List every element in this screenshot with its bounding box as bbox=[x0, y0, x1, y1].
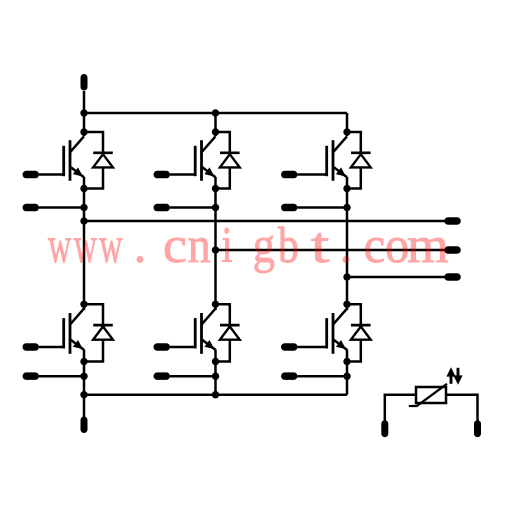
wire: gate lead of Q2 bbox=[170, 173, 195, 176]
terminal: gate G2 bbox=[154, 171, 171, 179]
terminal: auxiliary emitter E6 bbox=[281, 372, 298, 380]
junction: P bus at leg 2 bbox=[212, 109, 219, 116]
wire: leg 3 collector drop bbox=[346, 113, 349, 136]
junction: D3 anode / emitter node bbox=[343, 185, 350, 192]
junction: D6 anode / emitter node bbox=[343, 358, 350, 365]
junction: auxiliary emitter node bbox=[212, 204, 219, 211]
wire: gate lead of Q4 bbox=[39, 346, 64, 349]
terminal: DC+ (P) bbox=[81, 74, 88, 91]
svg-text:c: c bbox=[163, 217, 187, 274]
diode D4 bbox=[93, 325, 113, 340]
wire: phase U output line bbox=[84, 220, 445, 223]
svg-text:i: i bbox=[222, 216, 233, 273]
wire: thermistor left lead bbox=[385, 395, 416, 421]
terminal: auxiliary emitter E2 bbox=[154, 204, 171, 212]
svg-text:.: . bbox=[134, 218, 147, 274]
wire: diode branch of D4 bbox=[84, 304, 103, 361]
junction: D3 cathode node bbox=[343, 128, 350, 135]
wire: leg 1 emitter to N terminal bbox=[83, 350, 86, 418]
terminal: phase U bbox=[444, 217, 461, 225]
transistor Q1 (IGBT) bbox=[64, 136, 84, 181]
wire: leg 2 collector drop bbox=[214, 113, 217, 136]
junction: D6 cathode node bbox=[343, 301, 350, 308]
terminal: thermistor T2 bbox=[474, 420, 481, 437]
wire: auxiliary emitter lead of Q1 bbox=[39, 206, 84, 209]
terminal: auxiliary emitter E5 bbox=[154, 372, 171, 380]
junction: auxiliary emitter node bbox=[80, 373, 87, 380]
junction: D4 cathode node bbox=[80, 301, 87, 308]
transistor Q6 (IGBT) bbox=[327, 309, 347, 354]
thermistor RT1 diagonal stroke bbox=[409, 384, 447, 406]
wire: leg 1 midpoint vertical bbox=[83, 177, 86, 310]
wire: diode branch of D1 bbox=[84, 132, 103, 189]
junction: auxiliary emitter node bbox=[343, 373, 350, 380]
junction: D4 anode / emitter node bbox=[80, 358, 87, 365]
terminal: gate G3 bbox=[281, 171, 298, 179]
junction: D5 anode / emitter node bbox=[212, 358, 219, 365]
wire: leg 3 emitter drop bbox=[346, 350, 349, 395]
wire: leg 3 midpoint vertical bbox=[346, 177, 349, 310]
wire: gate lead of Q3 bbox=[298, 173, 327, 176]
wire: gate lead of Q1 bbox=[39, 173, 64, 176]
transistor Q5 (IGBT) bbox=[195, 309, 215, 354]
transistor Q2 (IGBT) bbox=[195, 136, 215, 181]
svg-text:m: m bbox=[407, 217, 449, 274]
wire: auxiliary emitter lead of Q4 bbox=[39, 375, 84, 378]
terminal: gate G4 bbox=[23, 343, 40, 351]
wire: diode branch of D2 bbox=[216, 132, 230, 189]
wire: phase V output line bbox=[216, 249, 446, 252]
svg-text:w: w bbox=[48, 218, 71, 274]
terminal: gate G1 bbox=[23, 171, 40, 179]
wire: diode branch of D3 bbox=[347, 132, 361, 189]
junction: phase V tap bbox=[212, 246, 219, 253]
wire: diode branch of D6 bbox=[347, 304, 361, 361]
diode D2 bbox=[220, 153, 240, 168]
wire: gate lead of Q5 bbox=[170, 346, 195, 349]
wire: auxiliary emitter lead of Q3 bbox=[298, 206, 348, 209]
diode D6 bbox=[351, 325, 371, 340]
terminal: phase W bbox=[444, 273, 461, 281]
diode D3 bbox=[351, 153, 371, 168]
wire: diode branch of D5 bbox=[216, 304, 230, 361]
thermistor RT1 (NTC) body bbox=[416, 387, 446, 403]
junction: N bus at leg 2 bbox=[212, 391, 219, 398]
junction: D2 anode / emitter node bbox=[212, 185, 219, 192]
svg-text:b: b bbox=[278, 217, 299, 274]
junction: D5 cathode node bbox=[212, 301, 219, 308]
svg-text:n: n bbox=[188, 218, 211, 274]
wire: phase W output line bbox=[347, 276, 445, 279]
wire: positive DC bus bbox=[84, 112, 347, 115]
junction: D1 anode / emitter node bbox=[80, 185, 87, 192]
watermark text bbox=[48, 216, 449, 274]
wire: auxiliary emitter lead of Q6 bbox=[298, 375, 348, 378]
svg-text:w: w bbox=[99, 218, 122, 274]
terminal: auxiliary emitter E4 bbox=[23, 372, 40, 380]
wire: thermistor right lead bbox=[446, 395, 478, 421]
junction: phase W tap bbox=[343, 273, 350, 280]
junction: phase U tap bbox=[80, 217, 87, 224]
terminal: auxiliary emitter E1 bbox=[23, 204, 40, 212]
diode D5 bbox=[220, 325, 240, 340]
svg-text:c: c bbox=[364, 217, 386, 273]
junction: P bus at leg 1 bbox=[80, 109, 87, 116]
transistor Q4 (IGBT) bbox=[64, 309, 84, 354]
junction: auxiliary emitter node bbox=[212, 373, 219, 380]
transistor Q3 (IGBT) bbox=[327, 136, 347, 181]
wire: auxiliary emitter lead of Q2 bbox=[170, 206, 216, 209]
svg-text:g: g bbox=[253, 217, 275, 274]
wire: gate lead of Q6 bbox=[298, 346, 327, 349]
terminal: phase V bbox=[444, 246, 461, 254]
terminal: thermistor T1 bbox=[381, 420, 388, 437]
svg-text:w: w bbox=[74, 218, 97, 274]
junction: auxiliary emitter node bbox=[343, 204, 350, 211]
diode D1 bbox=[93, 153, 113, 168]
terminal: DC- (N) bbox=[81, 417, 88, 434]
junction: D2 cathode node bbox=[212, 128, 219, 135]
thermistor temperature arrows bbox=[446, 367, 462, 385]
wire: auxiliary emitter lead of Q5 bbox=[170, 375, 216, 378]
terminal: auxiliary emitter E3 bbox=[281, 204, 298, 212]
svg-text:.: . bbox=[340, 218, 353, 274]
junction: N bus at leg 1 bbox=[80, 391, 87, 398]
junction: auxiliary emitter node bbox=[80, 204, 87, 211]
terminal: gate G6 bbox=[281, 343, 298, 351]
terminal: gate G5 bbox=[154, 343, 171, 351]
wire: leg 2 midpoint vertical bbox=[214, 177, 217, 310]
svg-text:t: t bbox=[311, 216, 330, 273]
wire: negative DC bus bbox=[84, 393, 347, 396]
junction: D1 cathode node bbox=[80, 128, 87, 135]
wire: leg 2 emitter drop bbox=[214, 350, 217, 395]
svg-text:o: o bbox=[385, 217, 409, 273]
wire: P terminal to bus bbox=[83, 91, 86, 136]
